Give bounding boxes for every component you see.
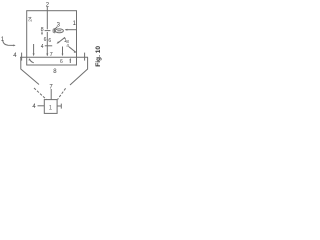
wire interior dash row — [45, 45, 52, 47]
wire right funnel slant — [70, 57, 88, 85]
svg-text:6: 6 — [44, 37, 47, 43]
wire left dashed beam — [34, 88, 46, 99]
wire down arrow x33 — [33, 44, 35, 55]
wire left funnel slant — [21, 57, 39, 84]
wire lead specimen box right — [57, 105, 61, 107]
svg-text:8: 8 — [41, 27, 44, 33]
svg-text:7: 7 — [50, 52, 53, 58]
wire filament bar — [45, 30, 51, 32]
wire lead under label 8 interior — [41, 32, 43, 34]
wire up arrow below line right — [69, 59, 71, 63]
wire wide stage line — [20, 56, 88, 58]
wire curved leader to right wall — [69, 47, 76, 52]
node arrowhead x47 — [46, 53, 48, 56]
svg-text:4: 4 — [41, 44, 44, 50]
node arrowhead under label 8 — [41, 33, 43, 35]
node arrowhead stage left — [29, 58, 31, 60]
node lens inner dash — [57, 30, 61, 32]
svg-text:6: 6 — [48, 38, 51, 44]
wire right dashed beam — [58, 88, 66, 99]
svg-text:Fig. 10: Fig. 10 — [95, 46, 102, 67]
wire long arrow from right wall — [65, 29, 76, 31]
enclosure box (column housing) — [27, 11, 77, 65]
wire curved arrow far left — [3, 41, 14, 45]
wire lead from label 2 down column axis — [46, 7, 48, 30]
node arrowhead stage right — [69, 58, 71, 60]
wire diagonal arrow — [58, 37, 65, 43]
node left cross tick — [21, 53, 23, 61]
svg-text:6: 6 — [60, 59, 63, 65]
svg-text:24: 24 — [27, 16, 32, 22]
node tick right of specimen box — [60, 104, 62, 109]
specimen box B1 — [44, 100, 57, 114]
node diagonal arrowhead — [57, 41, 60, 44]
svg-text:4: 4 — [66, 43, 69, 48]
wire lead from label 7 to specimen box — [50, 89, 52, 99]
node long arrowhead — [65, 29, 68, 31]
node arrowhead x62 — [62, 54, 64, 57]
wire hook lead from label 3 — [54, 27, 57, 29]
lens L1 — [55, 29, 63, 33]
wire vertical lead x62 — [62, 47, 64, 55]
node lens left arc — [53, 28, 56, 33]
node curved leader arrowhead — [74, 51, 77, 53]
wire lead label 4 to specimen box left — [38, 105, 45, 107]
node right cross tick — [84, 53, 86, 61]
node lens outer left arc — [52, 29, 55, 33]
wire column axis lower — [46, 32, 48, 56]
node far-left arrowhead — [13, 44, 15, 46]
wire curved leader to stage line left — [29, 59, 33, 63]
node arrowhead x33 — [33, 53, 35, 56]
